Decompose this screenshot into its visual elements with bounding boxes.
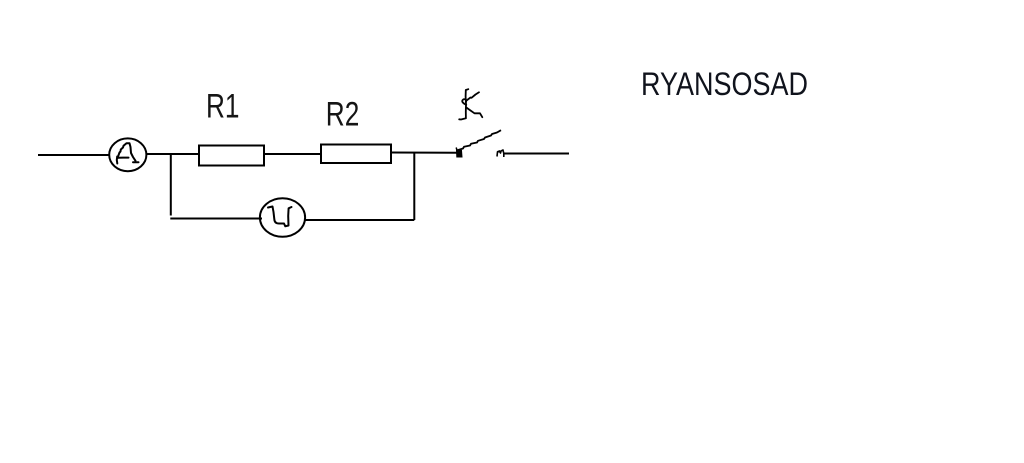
- svg-text:R1: R1: [206, 88, 240, 126]
- svg-text:RYANSOSAD: RYANSOSAD: [641, 66, 808, 102]
- svg-text:R2: R2: [326, 96, 360, 134]
